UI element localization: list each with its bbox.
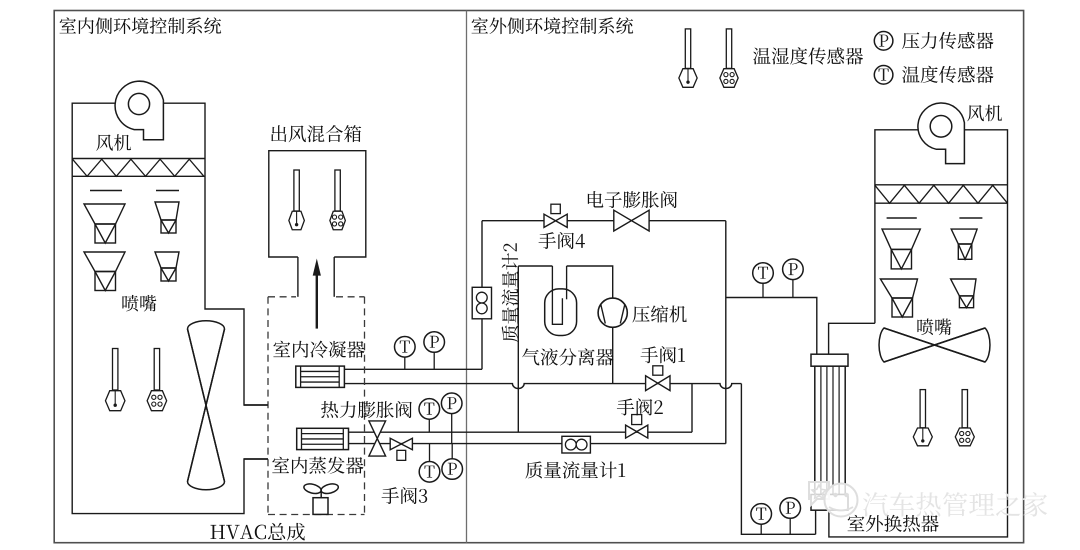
pipe condenser outlet to mass-flow-meter-2 riser <box>344 368 482 370</box>
label 喷嘴 outdoor nozzles <box>917 319 951 336</box>
spray header dash outdoor left <box>887 217 917 219</box>
pipe hand-valve-2 branch riser <box>691 384 693 433</box>
label 压力传感器 <box>902 32 993 49</box>
mass flow meter 1 质量流量计1 <box>562 436 591 453</box>
axial fan bowtie (outdoor, horizontal) <box>879 328 990 362</box>
pipe riser mass-flow-meter-2 lower <box>481 319 483 370</box>
nozzle indoor row1 large <box>84 204 125 224</box>
label 压缩机 <box>632 305 686 322</box>
label 手阀4 <box>539 232 585 249</box>
label indoor-side system title <box>60 17 222 34</box>
label 出风混合箱 <box>271 125 361 142</box>
thermal expansion valve 热力膨胀阀 (vertical bowtie) <box>369 421 386 456</box>
evaporator fan propeller symbol <box>303 482 339 495</box>
duct lines left box to HVAC box <box>244 404 268 406</box>
gauge T exchanger bottom line <box>760 524 762 534</box>
pipe compressor discharge down to liquid line <box>612 327 614 383</box>
pipe suction riser from evaporator line to separator <box>517 266 519 432</box>
gas-liquid separator tank 气液分离器 <box>545 289 577 336</box>
label 手阀1 <box>641 346 685 363</box>
label 风机 indoor fan <box>96 134 131 151</box>
compressor 压缩机 <box>598 298 627 327</box>
nozzle indoor row2 large <box>84 252 125 272</box>
temperature probe outdoor box <box>920 390 925 428</box>
gauge P condenser outlet <box>433 352 435 369</box>
temperature probe mixing box <box>294 170 299 211</box>
hand valve 手阀4 <box>544 214 567 227</box>
pipe riser expansion line down to flow-meter-1 line <box>725 221 727 444</box>
gauge P evaporator line upper <box>451 414 453 444</box>
label HVAC总成 <box>211 523 305 541</box>
spray header dash right <box>156 190 179 192</box>
temperature probe indoor box <box>113 349 118 391</box>
nozzle outdoor row2 small <box>951 279 976 296</box>
pipe exchanger bottom cap stub <box>815 510 817 534</box>
legend T symbol <box>874 66 893 85</box>
mass flow meter 2 质量流量计2 <box>472 287 491 319</box>
pipe separator inlet horizontal <box>518 265 552 267</box>
spray header dash outdoor right <box>959 217 982 219</box>
outlet mixing box outline <box>269 151 366 257</box>
axial fan bowtie (indoor, vertical) <box>188 321 225 490</box>
indoor evaporator coil 室内蒸发器 <box>297 428 349 449</box>
outdoor fan box outline <box>829 130 1008 537</box>
indoor condenser coil 室内冷凝器 <box>296 366 345 387</box>
label 室内蒸发器 <box>272 457 363 474</box>
label 质量流量计2 (vertical) <box>502 243 519 342</box>
indoor air-handling box outline <box>72 103 268 513</box>
legend temperature probe symbol <box>685 29 690 69</box>
pipe riser mass-flow-meter-2 upper <box>481 221 483 288</box>
label 质量流量计1 <box>525 461 625 478</box>
humidity probe mixing box <box>335 170 340 211</box>
hand valve 手阀1 <box>646 376 670 391</box>
nozzle indoor row2 small <box>155 252 179 268</box>
separator internal J-tube <box>552 266 562 324</box>
HVAC assembly dashed box <box>268 296 296 298</box>
pipe liquid/discharge line y384 with two crossing hops <box>344 384 741 389</box>
pipe exchanger to outdoor box duct <box>829 323 875 354</box>
blower fan hub circle (outdoor) <box>930 116 952 138</box>
pipe evaporator liquid line B through flow-meter-1 <box>349 443 726 445</box>
nozzle outdoor row1 large <box>882 229 920 249</box>
label 室外换热器 <box>848 515 939 532</box>
label 室内冷凝器 <box>273 341 364 358</box>
pipe top line hand-valve-4 / electronic-expansion-valve <box>482 220 726 222</box>
hand valve 手阀2 <box>626 425 648 438</box>
label 喷嘴 indoor nozzles <box>122 295 156 312</box>
gauge T condenser outlet <box>404 357 406 369</box>
nozzle outdoor row1 small <box>951 229 977 244</box>
outdoor heat exchanger 室外换热器 <box>811 354 848 366</box>
watermark text 汽车热管理之家 <box>863 492 1047 517</box>
gauge T exchanger top line <box>762 283 764 297</box>
filter zigzag band (outdoor) <box>875 184 1008 186</box>
label 温湿度传感器 <box>753 47 863 64</box>
nozzle indoor row1 small <box>155 202 179 220</box>
label 手阀3 <box>382 487 428 504</box>
blower fan hub circle (indoor) <box>128 93 149 114</box>
electronic expansion valve 电子膨胀阀 <box>614 210 649 231</box>
pipe right riser to outdoor exchanger bottom <box>741 384 815 535</box>
gauge T evaporator line upper <box>428 419 430 432</box>
separator inlet tube open end <box>566 266 568 299</box>
blower fan scroll (indoor) <box>115 81 163 140</box>
spray header dash left <box>90 190 122 192</box>
nozzle outdoor row2 large <box>880 279 917 298</box>
legend humidity probe symbol <box>726 29 731 69</box>
legend P symbol <box>874 32 893 51</box>
label 电子膨胀阀 <box>588 191 677 208</box>
pipe separator outlet to compressor <box>567 266 613 298</box>
gauge P evaporator line lower <box>451 444 453 459</box>
section divider line <box>466 11 468 543</box>
mixing box neck walls <box>297 257 299 297</box>
label 气液分离器 <box>522 348 613 365</box>
gauge P exchanger bottom line <box>789 518 791 534</box>
humidity probe indoor box <box>154 349 159 391</box>
gauge T evaporator line lower <box>429 444 431 462</box>
humidity probe outdoor box <box>962 390 967 428</box>
air flow arrow up <box>316 273 318 329</box>
pipe exchanger top line with T/P gauges <box>726 298 817 355</box>
label 手阀2 <box>617 398 663 415</box>
gauge P exchanger top line <box>792 280 794 298</box>
label 温度传感器 <box>902 66 993 83</box>
label 风机 outdoor fan <box>967 105 1002 122</box>
blower fan scroll (outdoor) <box>918 103 964 164</box>
watermark logo icon <box>809 482 858 517</box>
hand valve 手阀3 <box>390 438 412 450</box>
pipe evaporator outlet line A <box>349 431 693 433</box>
label outdoor-side system title <box>472 17 634 34</box>
label 热力膨胀阀 <box>321 401 412 418</box>
filter zigzag band (indoor) <box>72 158 205 160</box>
